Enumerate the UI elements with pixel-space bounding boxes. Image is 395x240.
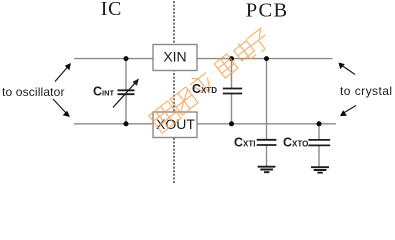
svg-text:PCB: PCB	[246, 0, 289, 21]
svg-text:IC: IC	[101, 0, 122, 20]
svg-text:to oscillator: to oscillator	[2, 85, 65, 99]
svg-text:to crystal: to crystal	[340, 84, 393, 98]
svg-text:XIN: XIN	[163, 49, 186, 65]
